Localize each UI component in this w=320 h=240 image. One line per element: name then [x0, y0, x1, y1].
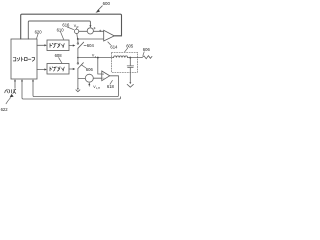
svg-text:618: 618 — [107, 84, 115, 89]
leader 616 — [67, 27, 73, 30]
ground right arrowhead — [129, 82, 131, 84]
svg-text:606: 606 — [143, 47, 151, 52]
dashed filter box 614 — [112, 52, 138, 72]
label 618 — [107, 84, 115, 89]
label V_L,H — [93, 85, 100, 90]
wire comparator output — [110, 75, 119, 77]
wire node down to switch 604 — [77, 39, 79, 43]
ground left arrowhead — [77, 88, 79, 90]
junction dot on Vx line — [97, 57, 99, 59]
label 605 — [126, 44, 134, 49]
label 616 — [62, 22, 70, 27]
svg-text:616: 616 — [62, 22, 70, 27]
label V_R — [74, 24, 79, 29]
wire output line — [128, 57, 143, 59]
wire: outer feedback loop from op-amp output to controller top — [21, 14, 122, 39]
leader for 620 — [37, 34, 38, 38]
wire tee to summing circle — [78, 78, 85, 80]
svg-text:L,H: L,H — [96, 87, 100, 90]
Vx node dot — [77, 57, 79, 59]
leader 605 — [124, 48, 127, 52]
label 606 output — [143, 47, 151, 52]
wire down to ground — [77, 79, 79, 89]
summing circle 616 (small, near VR) — [74, 29, 78, 33]
leader 606 — [81, 65, 86, 68]
ground right chevron — [127, 84, 133, 87]
wire op-amp output to corner — [114, 35, 121, 37]
wire small circle to circle 602 — [79, 30, 87, 32]
junction dot output node — [129, 57, 131, 59]
arrowhead of 622 leader (dark blob) — [10, 94, 14, 98]
summing circle 602 (large) — [87, 28, 93, 34]
text パルス — [5, 89, 16, 93]
wire switch 604 to Vx node — [77, 48, 79, 57]
leader 606 output — [143, 52, 144, 56]
arrowhead feedback B into controller — [32, 79, 34, 81]
switch 606 blade — [78, 63, 84, 69]
comparator 618 — [102, 71, 110, 81]
svg-text:605: 605 — [126, 44, 134, 49]
arrowhead into summing circle — [89, 25, 91, 28]
label 604 — [87, 43, 95, 48]
svg-text:620: 620 — [35, 29, 43, 34]
label 622 — [1, 107, 9, 112]
wire circle to comparator input — [93, 77, 101, 79]
wire capacitor to ground — [129, 68, 131, 83]
output squiggle — [142, 56, 152, 59]
svg-text:614: 614 — [110, 44, 118, 49]
arrow controller to driver2 — [37, 69, 45, 71]
op-amp 614 — [104, 30, 115, 41]
comparator input marks — [102, 73, 103, 74]
label 606 lower switch — [86, 67, 94, 72]
driver1 box — [47, 40, 69, 51]
driver2 text ドライバ — [50, 67, 64, 71]
leader 618 — [110, 80, 112, 84]
ground left chevron — [76, 90, 80, 92]
driver1 text ドライバ — [50, 43, 64, 47]
wire switch 606 down — [77, 69, 79, 79]
V_L,H input arrowhead — [88, 83, 90, 86]
svg-text:608: 608 — [55, 53, 63, 58]
capacitor — [127, 58, 133, 68]
arrow driver1 to switch 604 — [69, 45, 73, 47]
plus mark at op-amp input — [99, 30, 101, 32]
label 614 — [110, 44, 118, 49]
summing circle V_L,H — [85, 74, 93, 82]
switch 606 contact — [77, 63, 79, 65]
svg-text:606: 606 — [86, 67, 94, 72]
leader 614 — [108, 42, 111, 45]
driver2 box — [47, 64, 69, 75]
svg-text:610: 610 — [57, 27, 65, 32]
svg-text:600: 600 — [103, 1, 111, 6]
label 620 — [35, 29, 43, 34]
leader 610 — [61, 32, 64, 39]
leader arrow for 600 — [98, 6, 103, 11]
wire Vx node down to switch 606 — [77, 58, 79, 63]
wire feedback A: controller bottom to lower right — [22, 81, 121, 99]
wire node to op-amp lower input — [78, 38, 104, 40]
wire small circle bottom to node — [76, 34, 79, 40]
arrowhead pulse into controller — [14, 79, 16, 81]
controller box 620 — [11, 39, 37, 79]
switch 604 blade — [78, 42, 84, 48]
svg-text:622: 622 — [1, 107, 9, 112]
leader 622 — [6, 98, 10, 104]
leader 604 — [84, 44, 86, 46]
label 600 figure number — [103, 1, 111, 6]
wire junction down to comparator — [98, 58, 102, 74]
inductor — [114, 56, 128, 58]
arrow driver2 to switch 606 — [69, 68, 73, 70]
node junction dot — [77, 38, 79, 40]
svg-text:604: 604 — [87, 43, 95, 48]
wire feedback B: comparator output to controller bottom — [33, 76, 118, 97]
label 608 driver2 — [55, 53, 63, 58]
wire VR into small summing circle — [76, 27, 78, 30]
wire Vx line to inductor — [78, 57, 114, 59]
switch 604 contact — [77, 43, 79, 45]
wire pulse input stub — [14, 81, 16, 89]
controller text コントローラ (drawn strokes) — [13, 57, 34, 61]
leader 608 — [59, 58, 62, 63]
label Vx — [92, 54, 97, 59]
plus mark near 602 — [94, 27, 96, 29]
wire circle 602 to op-amp input — [93, 30, 103, 32]
wire: inner line controller top to summing circle 602 — [28, 21, 90, 39]
label 610 driver1 — [57, 27, 65, 32]
arrowhead feedback A into controller — [21, 79, 23, 81]
arrow controller to driver1 — [37, 44, 45, 46]
